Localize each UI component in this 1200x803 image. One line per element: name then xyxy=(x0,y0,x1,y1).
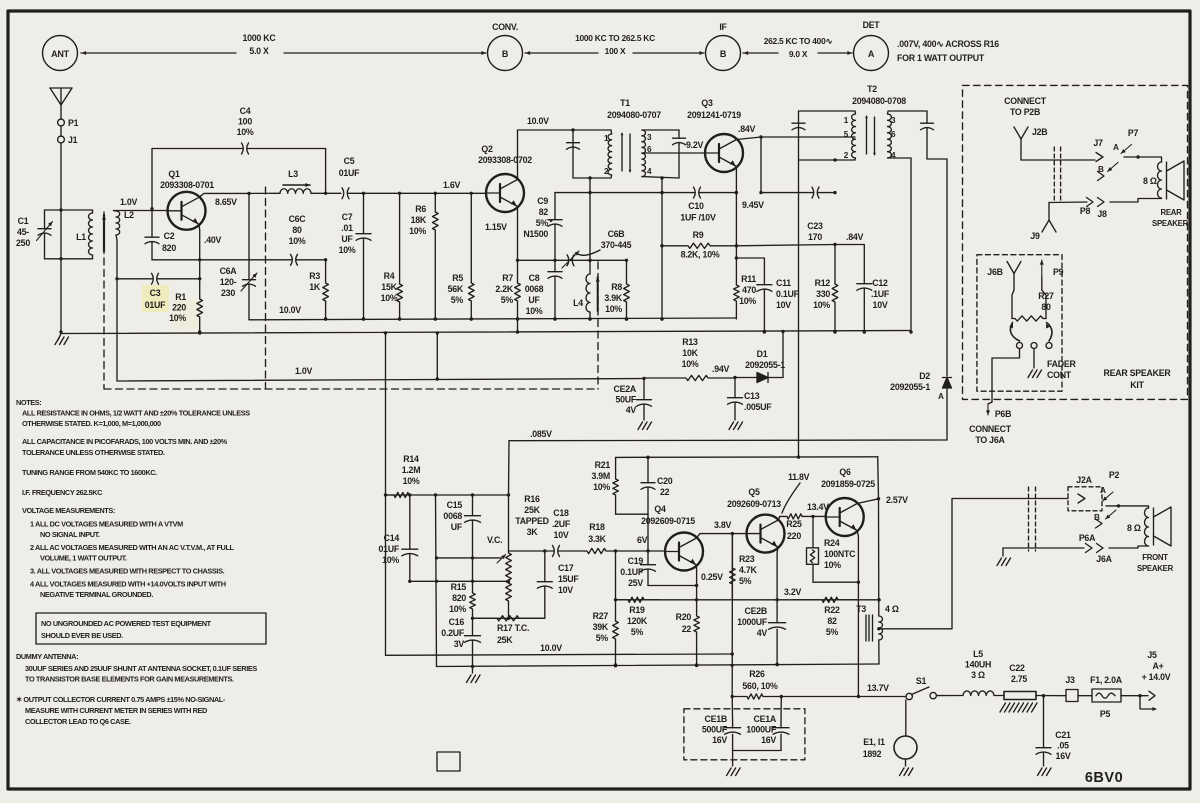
wire T1 sec loop bottom xyxy=(642,176,679,179)
svg-text:C6C: C6C xyxy=(289,214,307,224)
plug arrow P6B xyxy=(986,404,990,415)
label J2A xyxy=(1076,475,1092,485)
resistor R3 xyxy=(323,260,329,321)
wire row 618 xyxy=(473,617,545,619)
svg-text:170: 170 xyxy=(808,232,822,242)
svg-text:R4: R4 xyxy=(384,271,395,281)
fader terminals xyxy=(1017,343,1053,349)
svg-text:OTHERWISE STATED. K=1,000, M: OTHERWISE STATED. K=1,000, M=1,000,000 xyxy=(22,419,161,428)
svg-text:.005UF: .005UF xyxy=(744,402,772,412)
svg-text:NO SIGNAL INPUT.: NO SIGNAL INPUT. xyxy=(40,530,100,539)
svg-text:C22: C22 xyxy=(1009,663,1025,673)
label Q2 xyxy=(478,144,532,165)
svg-text:3.9K: 3.9K xyxy=(604,293,622,303)
resistor R21 xyxy=(613,457,619,514)
wire detector node down xyxy=(759,137,762,194)
svg-text:A: A xyxy=(1113,143,1119,152)
svg-text:REAR SPEAKER: REAR SPEAKER xyxy=(1104,368,1172,378)
svg-text:6BV0: 6BV0 xyxy=(1085,770,1123,786)
svg-text:B: B xyxy=(502,49,509,59)
svg-text:R27: R27 xyxy=(593,611,609,621)
svg-text:UF: UF xyxy=(451,522,463,532)
svg-text:J2A: J2A xyxy=(1076,475,1092,485)
label 9.2V xyxy=(686,140,703,150)
wire 1.0V row xyxy=(117,377,646,381)
stage circle CONV xyxy=(488,22,523,71)
label 1000KC TO 262.5KC 100X xyxy=(575,33,655,56)
svg-text:1000 KC TO 262.5 KC: 1000 KC TO 262.5 KC xyxy=(575,33,655,43)
svg-text:5%: 5% xyxy=(501,295,514,305)
svg-text:13.7V: 13.7V xyxy=(867,683,889,693)
label C3 01UF xyxy=(145,288,166,310)
svg-text:8.2K, 10%: 8.2K, 10% xyxy=(681,250,720,260)
volume control R16 xyxy=(506,495,512,620)
label P9 xyxy=(1053,267,1064,277)
svg-text:CONV.: CONV. xyxy=(492,22,518,32)
label F1 2.0A xyxy=(1090,675,1123,685)
wire T1 sec loop top xyxy=(643,129,680,131)
wire C19 bottom xyxy=(648,585,697,587)
label C6B 370-445 xyxy=(601,229,632,250)
svg-text:100: 100 xyxy=(238,117,252,127)
label R17 TC 25K xyxy=(497,623,529,645)
svg-text:2091859-0725: 2091859-0725 xyxy=(821,479,875,489)
wire C2 bottom to emitter xyxy=(152,259,200,261)
wire R9 row to R12 xyxy=(736,245,835,246)
connector J1 xyxy=(58,135,78,145)
capacitor CE1B xyxy=(725,724,741,751)
svg-text:10%: 10% xyxy=(449,604,466,614)
label 3.2V xyxy=(784,587,801,597)
svg-text:2093308-0702: 2093308-0702 xyxy=(478,155,532,165)
wire F1 to J5 xyxy=(1121,694,1148,697)
transformer T1 primary xyxy=(573,130,612,180)
label CONNECT TO P2B xyxy=(1004,96,1047,117)
resistor R12 xyxy=(832,245,838,334)
wire Q1 emitter down xyxy=(198,230,201,297)
label T2 xyxy=(852,84,906,106)
transformer T1 core xyxy=(621,132,632,173)
label .84V at Q3 xyxy=(738,124,755,134)
svg-text:VOLUME, 1 WATT OUTPUT.: VOLUME, 1 WATT OUTPUT. xyxy=(40,554,127,563)
svg-text:100 X: 100 X xyxy=(605,46,626,56)
svg-text:R16: R16 xyxy=(524,494,540,504)
label C15 0068 UF xyxy=(443,500,462,532)
svg-text:R5: R5 xyxy=(452,273,463,283)
svg-text:J8: J8 xyxy=(1097,209,1107,219)
svg-text:10%: 10% xyxy=(237,127,254,137)
wire CE1 bottom xyxy=(733,750,781,752)
label C2 820 xyxy=(162,231,176,253)
svg-text:D2: D2 xyxy=(919,371,930,381)
svg-text:5%: 5% xyxy=(739,576,752,586)
svg-text:C19: C19 xyxy=(628,556,644,566)
svg-text:1892: 1892 xyxy=(863,749,882,759)
svg-text:1.6V: 1.6V xyxy=(443,180,460,190)
wire Q3 collector xyxy=(737,135,763,139)
svg-text:3. ALL VOLTAGES MEASURED WITH: 3. ALL VOLTAGES MEASURED WITH RESPECT TO… xyxy=(30,567,225,576)
svg-text:39K: 39K xyxy=(593,622,609,632)
svg-text:FADER: FADER xyxy=(1047,359,1076,369)
label R27 39K 5% xyxy=(593,611,609,643)
wire emitter node row xyxy=(518,259,591,261)
wire J1 down to ground bus xyxy=(59,143,62,334)
leader C6B xyxy=(578,250,600,255)
svg-text:Q2: Q2 xyxy=(481,144,493,154)
ground C16 xyxy=(467,667,481,683)
label D1 xyxy=(745,349,785,370)
ground C22 hatch xyxy=(1000,703,1037,712)
wire CE1A top xyxy=(780,697,782,725)
svg-text:C15: C15 xyxy=(447,500,463,510)
wire S1 to L5 xyxy=(936,695,963,697)
label R26 560 xyxy=(742,669,778,691)
label R19 120K 5% xyxy=(627,605,648,637)
svg-text:560, 10%: 560, 10% xyxy=(742,681,778,691)
svg-text:UF: UF xyxy=(341,234,353,244)
label 8 ohm rear xyxy=(1143,176,1157,186)
label B front xyxy=(1094,513,1100,522)
connector B rear xyxy=(1098,172,1105,181)
svg-text:R26: R26 xyxy=(749,669,765,679)
wire collector rail corner xyxy=(877,457,880,499)
svg-text:FOR 1 WATT OUTPUT: FOR 1 WATT OUTPUT xyxy=(897,53,985,63)
svg-text:10V: 10V xyxy=(558,585,573,595)
svg-text:I.F. FREQUENCY 262.5KC: I.F. FREQUENCY 262.5KC xyxy=(22,488,103,497)
label R24 100NTC 10% xyxy=(824,538,856,570)
thermistor R24 xyxy=(807,516,859,582)
label J6B xyxy=(987,267,1002,277)
svg-text:C1: C1 xyxy=(18,216,29,226)
transistor Q5 xyxy=(747,515,785,553)
inductor L1 xyxy=(76,210,92,259)
svg-text:22: 22 xyxy=(682,624,692,634)
wire R23 node down xyxy=(731,534,734,699)
warning box xyxy=(36,613,266,644)
svg-text:2092055-1: 2092055-1 xyxy=(890,382,930,392)
label R7 2.2K 5% xyxy=(495,273,513,305)
inductor L2 xyxy=(114,211,120,241)
wire T2 det out xyxy=(927,158,947,160)
wire row 581 xyxy=(408,580,510,583)
label Q4 xyxy=(641,504,695,526)
svg-text:J6A: J6A xyxy=(1096,554,1112,564)
fader control R27 xyxy=(1012,316,1046,321)
svg-text:15K: 15K xyxy=(381,282,397,292)
svg-text:R1: R1 xyxy=(175,292,186,302)
svg-text:TAPPED: TAPPED xyxy=(515,516,549,526)
svg-text:1: 1 xyxy=(604,134,609,143)
transformer T3 xyxy=(866,615,883,641)
gang dashed line mid xyxy=(265,187,267,389)
svg-text:Q3: Q3 xyxy=(701,98,713,108)
svg-text:10.0V: 10.0V xyxy=(540,643,562,653)
svg-text:C23: C23 xyxy=(807,221,823,231)
svg-text:5%: 5% xyxy=(451,295,464,305)
svg-text:R8: R8 xyxy=(611,282,622,292)
svg-text:5: 5 xyxy=(844,130,849,139)
wire speaker bottom xyxy=(1110,199,1162,203)
label C17 15UF 10V xyxy=(558,563,579,595)
svg-text:220: 220 xyxy=(172,303,186,313)
capacitor C12 xyxy=(857,245,872,334)
label C18 .2UF 10V xyxy=(552,508,571,540)
label 13.4V xyxy=(807,502,829,512)
wire T1 sec bottom down xyxy=(588,178,591,274)
speaker rear cone xyxy=(1167,161,1185,200)
wire x436 vertical xyxy=(436,495,437,667)
svg-text:L4: L4 xyxy=(573,298,583,308)
label T3 4ohm xyxy=(856,604,899,614)
notes text block 2 xyxy=(16,652,257,726)
svg-text:0068: 0068 xyxy=(443,511,462,521)
capacitor CE2B xyxy=(769,600,786,666)
wire front speaker bottom xyxy=(1109,546,1149,548)
wire Q1 collector xyxy=(199,192,251,198)
svg-text:C13: C13 xyxy=(744,391,760,401)
label L5 140UH 3ohm xyxy=(965,649,991,680)
svg-text:R7: R7 xyxy=(502,273,513,283)
svg-text:10%: 10% xyxy=(382,555,399,565)
wire J9 row xyxy=(1049,201,1087,204)
label C1 45-250 xyxy=(16,216,30,248)
label J2B xyxy=(1032,127,1047,137)
resistor R19 xyxy=(616,597,661,602)
label Q3 xyxy=(687,98,741,120)
label 262.5KC TO 400 9.0X xyxy=(764,36,833,59)
wire main row Q1-Q2 xyxy=(249,192,280,194)
label .085V xyxy=(530,429,552,439)
speaker front coil xyxy=(1145,508,1149,546)
capacitor C7 xyxy=(356,193,371,320)
svg-text:R9: R9 xyxy=(693,230,704,240)
connector B front xyxy=(1096,519,1103,528)
connector J7 xyxy=(1093,138,1103,162)
label 2.57V xyxy=(886,495,908,505)
feedthrough C22 xyxy=(1004,692,1036,700)
capacitor C21 xyxy=(1036,696,1051,756)
label V.C. xyxy=(487,535,502,545)
svg-text:262.5 KC TO 400∿: 262.5 KC TO 400∿ xyxy=(764,36,833,46)
svg-text:CONT: CONT xyxy=(1047,370,1072,380)
wire row 557 xyxy=(435,556,501,559)
wire R21 C20 bottom xyxy=(616,513,648,515)
svg-text:3: 3 xyxy=(647,133,652,142)
label R5 56K 5% xyxy=(448,273,464,305)
svg-text:R14: R14 xyxy=(403,454,419,464)
connector P8 J8 xyxy=(1080,198,1107,220)
capacitor T1 padder xyxy=(567,143,580,150)
label R15 820 10% xyxy=(449,582,466,614)
wire Q6 emitter down xyxy=(857,536,860,698)
svg-text:0.1UF: 0.1UF xyxy=(776,289,800,299)
wire tank bottom xyxy=(45,258,93,260)
label 6BV0 xyxy=(1085,770,1123,786)
svg-text:2094080-0707: 2094080-0707 xyxy=(607,110,661,120)
plug arrow B rear xyxy=(1108,163,1119,172)
label C10 1UF/10V xyxy=(680,201,716,223)
svg-text:TO J6A: TO J6A xyxy=(975,435,1005,445)
speaker front cone xyxy=(1154,507,1172,546)
svg-text:10%: 10% xyxy=(526,306,543,316)
wire Q6 collector down xyxy=(877,499,880,616)
capacitor C20 xyxy=(641,456,655,515)
svg-text:C7: C7 xyxy=(342,212,353,222)
gang dashed line right xyxy=(597,262,599,389)
wire antenna to tank xyxy=(60,126,62,136)
svg-text:C20: C20 xyxy=(657,476,673,486)
label C8 0068 UF 10% xyxy=(525,273,544,316)
svg-text:C17: C17 xyxy=(558,563,574,573)
svg-text:820: 820 xyxy=(162,243,176,253)
label D2 xyxy=(890,371,944,401)
capacitor C8 xyxy=(548,260,562,320)
svg-text:5%: 5% xyxy=(631,627,644,637)
resistor R11 xyxy=(734,285,740,317)
connector P1 xyxy=(58,118,79,128)
svg-text:UF: UF xyxy=(528,295,540,305)
svg-text:C9: C9 xyxy=(537,196,548,206)
antenna J9 xyxy=(1042,203,1056,233)
svg-text:9.0 X: 9.0 X xyxy=(789,49,808,59)
svg-text:N1500: N1500 xyxy=(523,229,548,239)
svg-text:J7: J7 xyxy=(1093,138,1103,148)
label across R16 xyxy=(897,39,999,63)
svg-text:16V: 16V xyxy=(761,735,776,745)
fader wiper arcs xyxy=(1009,323,1052,342)
svg-text:✶ OUTPUT COLLECTOR CURRENT 0.: ✶ OUTPUT COLLECTOR CURRENT 0.75 AMPS ±15… xyxy=(16,695,226,704)
label A rear xyxy=(1113,143,1119,152)
label C6C 80 10% xyxy=(289,214,307,246)
resistor R1 xyxy=(197,297,203,334)
wire audio rail xyxy=(616,455,878,459)
notes text block xyxy=(16,398,250,599)
resistor R13 xyxy=(644,375,737,380)
variable capacitor C6B xyxy=(567,255,592,266)
label R21 3.9M 10% xyxy=(591,460,610,492)
svg-text:1UF /10V: 1UF /10V xyxy=(680,213,716,223)
resistor R6 xyxy=(433,193,439,320)
label C4 100 10% xyxy=(237,106,254,137)
svg-text:01UF: 01UF xyxy=(378,544,399,554)
svg-text:C11: C11 xyxy=(776,278,791,288)
svg-text:VOLTAGE MEASUREMENTS:: VOLTAGE MEASUREMENTS: xyxy=(22,506,115,515)
label T1 xyxy=(607,98,661,120)
wire L4 bottom xyxy=(588,312,591,321)
label 1.0V at L2 xyxy=(120,197,137,207)
wire L2 top to Q1 base xyxy=(114,210,169,212)
svg-text:DET: DET xyxy=(863,20,881,30)
svg-text:ALL CAPACITANCE IN PICOFARADS,: ALL CAPACITANCE IN PICOFARADS, 100 VOLTS… xyxy=(22,437,228,446)
svg-text:6: 6 xyxy=(891,130,896,139)
arrow C6A variable xyxy=(241,273,257,291)
plug arrow A rear xyxy=(1121,145,1132,154)
svg-text:C21: C21 xyxy=(1055,730,1071,740)
svg-text:25K: 25K xyxy=(497,635,513,645)
svg-text:J9: J9 xyxy=(1030,231,1040,241)
label CONNECT TO J6A xyxy=(969,424,1012,445)
label R27 80 xyxy=(1038,291,1054,312)
svg-text:2091241-0719: 2091241-0719 xyxy=(687,110,741,120)
capacitor C5 xyxy=(342,188,364,199)
label 10.0V osc xyxy=(279,305,301,315)
svg-text:.84V: .84V xyxy=(846,232,863,242)
svg-text:10K: 10K xyxy=(682,348,698,358)
transformer T2 core xyxy=(865,115,876,156)
pin labels T1 xyxy=(604,133,652,176)
wire 13.7V row xyxy=(781,696,906,698)
svg-text:1.15V: 1.15V xyxy=(485,222,507,232)
label 8 ohm front xyxy=(1127,523,1141,533)
svg-text:R24: R24 xyxy=(824,538,840,548)
wire .085 corner xyxy=(508,441,511,495)
svg-text:SPEAKER: SPEAKER xyxy=(1152,219,1189,228)
label E1 I1 1892 xyxy=(863,737,885,759)
diode D2 xyxy=(943,159,952,440)
svg-text:C2: C2 xyxy=(164,231,175,241)
label REAR SPEAKER KIT xyxy=(1104,368,1172,390)
label .84V at R12 xyxy=(846,232,863,242)
capacitor C19 xyxy=(641,551,656,586)
capacitor C14 xyxy=(402,495,418,581)
pin labels T2 xyxy=(844,116,896,160)
connector J5 xyxy=(1140,691,1157,711)
svg-text:3: 3 xyxy=(891,116,896,125)
capacitor C6C xyxy=(200,254,328,265)
svg-text:TO P2B: TO P2B xyxy=(1010,107,1040,117)
wire 3.2V row xyxy=(614,598,881,601)
bus ground xyxy=(61,330,911,335)
svg-text:3 Ω: 3 Ω xyxy=(971,670,985,680)
svg-text:P8: P8 xyxy=(1080,206,1091,216)
antenna J6B xyxy=(1007,261,1021,290)
ground main xyxy=(55,334,69,345)
svg-text:2: 2 xyxy=(604,167,609,176)
svg-text:R13: R13 xyxy=(682,337,698,347)
fuse F1 xyxy=(1092,689,1121,702)
wire speaker feed xyxy=(879,499,1068,629)
svg-text:10%: 10% xyxy=(682,359,699,369)
svg-text:80: 80 xyxy=(292,225,302,235)
lamp E1 I1 1892 xyxy=(894,700,917,776)
label C21 .05 16V xyxy=(1055,730,1071,761)
label R6 18K 10% xyxy=(409,204,427,236)
label CE1A 1000UF 16V xyxy=(746,714,777,745)
svg-text:C6B: C6B xyxy=(608,229,625,239)
svg-text:10%: 10% xyxy=(381,293,398,303)
label R18 3.3K xyxy=(588,522,606,544)
ground C21 xyxy=(1038,756,1052,776)
capacitor C2 xyxy=(145,209,159,260)
arrow L3 tuning xyxy=(283,183,310,187)
resistor R17 xyxy=(473,616,545,621)
label .40V xyxy=(204,235,221,245)
svg-text:8.65V: 8.65V xyxy=(215,197,237,207)
label REAR SPEAKER xyxy=(1152,208,1189,228)
svg-text:1.0V: 1.0V xyxy=(120,197,137,207)
svg-text:CE1A: CE1A xyxy=(754,714,777,724)
wire A front to speaker xyxy=(1106,504,1149,508)
wire T1 pin6 to Q3 base xyxy=(642,152,705,154)
svg-text:C10: C10 xyxy=(688,201,704,211)
svg-text:470: 470 xyxy=(742,285,756,295)
svg-text:NOTES:: NOTES: xyxy=(16,398,41,407)
svg-text:FRONT: FRONT xyxy=(1142,553,1168,562)
wire J2B to J7 xyxy=(1021,159,1095,161)
label 0.25V xyxy=(701,572,723,582)
dashed box CE1 xyxy=(684,709,805,760)
wire C20 node down xyxy=(647,514,649,551)
